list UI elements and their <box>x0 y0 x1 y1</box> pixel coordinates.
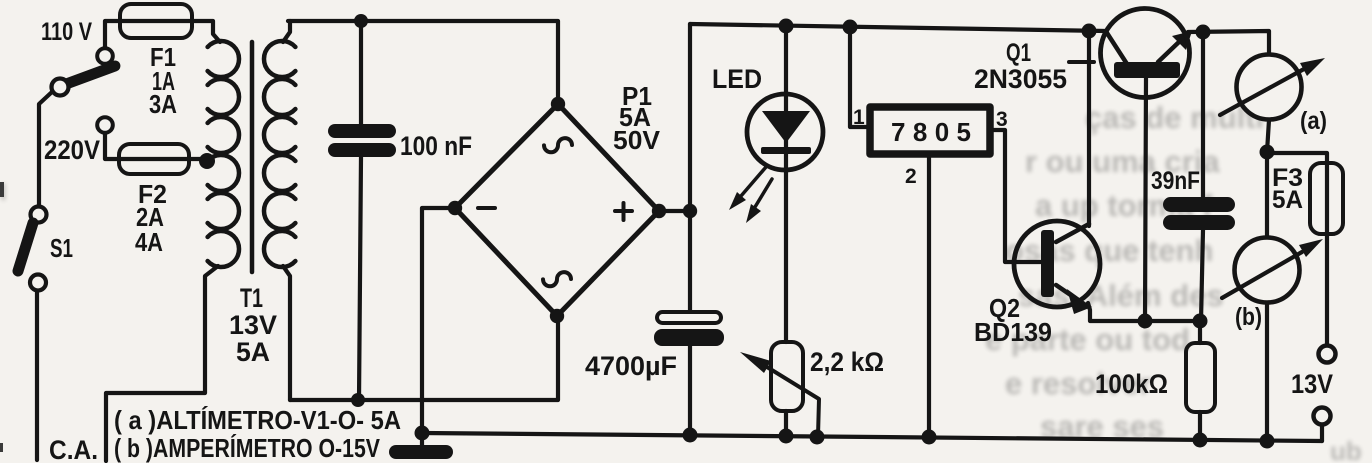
node Q1 base junction <box>1138 314 1153 329</box>
wire 39nF top <box>1201 32 1205 198</box>
LED light arrow 2 <box>746 179 772 223</box>
svg-text:2: 2 <box>905 165 917 188</box>
node rail 7805 <box>843 20 858 35</box>
svg-text:3A: 3A <box>149 89 177 119</box>
wire 100nF bottom <box>359 157 361 400</box>
capacitor 39nF <box>1163 197 1235 230</box>
selector contact 110V <box>97 48 113 64</box>
capacitor 4700uF <box>654 312 724 346</box>
node meters F3 junction <box>1260 145 1275 160</box>
svg-text:Q1: Q1 <box>1006 39 1031 67</box>
node rail 7805 pin2 <box>922 430 937 445</box>
wire 7805 pin 2 to rail <box>927 154 931 437</box>
transistor Q2 BD139 <box>1014 221 1100 314</box>
selector switch arm <box>58 66 115 87</box>
svg-text:5A: 5A <box>1272 186 1303 214</box>
node 39nF 100k junction <box>1193 314 1208 329</box>
node rail 39nF <box>1196 25 1211 40</box>
wire bridge minus to bottom rail <box>422 208 455 446</box>
terminal 13V plus <box>1319 346 1336 363</box>
svg-text:3: 3 <box>996 108 1008 131</box>
transformer T1 core <box>250 42 255 272</box>
wire 100k bottom <box>1198 412 1202 440</box>
LED D1 <box>747 94 823 170</box>
scan mark left edge lower <box>0 443 3 452</box>
bridge AC squiggle top <box>544 138 572 152</box>
wire 13V minus terminal to rail <box>1320 424 1324 441</box>
wire pot bottom to rail <box>784 411 788 436</box>
transformer T1 primary tap node <box>199 153 215 169</box>
fuse F1 <box>120 4 192 38</box>
transistor Q1 2N3055 <box>1101 9 1193 98</box>
wire node through fuse F3 to 13V plus terminal <box>1267 153 1327 346</box>
wire switch pivot down to S1 <box>39 91 53 206</box>
svg-text:39nF: 39nF <box>1151 167 1200 195</box>
svg-text:1: 1 <box>853 106 865 129</box>
wire bridge plus to 4700uF line <box>659 209 690 213</box>
svg-text:220V: 220V <box>44 135 100 165</box>
potentiometer wiper arrow <box>740 352 819 436</box>
wire meter (a) to node <box>1267 120 1269 152</box>
wire Q1 base down <box>1145 78 1146 321</box>
switch S1 contact top <box>31 207 47 223</box>
wire secondary top lead <box>283 21 290 42</box>
svg-text:(a): (a) <box>1300 107 1327 135</box>
svg-text:100kΩ: 100kΩ <box>1095 369 1168 399</box>
wire 4700uF vertical bottom <box>688 343 692 435</box>
wire Q2 emitter node to 100k node <box>1088 303 1200 321</box>
wire secondary bottom lead <box>283 266 290 400</box>
svg-text:( b )AMPERÍMETRO O-15V: ( b )AMPERÍMETRO O-15V <box>114 433 381 463</box>
svg-text:4A: 4A <box>135 227 163 257</box>
label pointer dash 2N3055 <box>1069 60 1094 64</box>
node rail 4700uF <box>683 428 698 443</box>
node rail 100k <box>1193 433 1208 448</box>
meter (b) <box>1222 238 1323 303</box>
wire 7805 pin 1 <box>850 27 870 127</box>
switch S1 arm <box>18 223 33 271</box>
switch S1 contact bottom <box>30 275 46 291</box>
fuse F2 <box>119 144 189 174</box>
node rail meter (b) <box>1260 434 1275 449</box>
svg-text:13V: 13V <box>1291 369 1333 399</box>
meter (a) <box>1220 55 1325 120</box>
bridge rectifier P1 <box>455 104 659 316</box>
node rail pot wiper <box>810 430 825 445</box>
resistor 100k <box>1186 343 1215 412</box>
LED light arrow 1 <box>729 167 766 210</box>
node secondary bottom / 100nF <box>351 393 365 407</box>
svg-text:5A: 5A <box>236 337 270 367</box>
wire 110V circle through fuse F1 to primary top <box>105 21 220 49</box>
wire top rail left segment <box>690 24 1106 31</box>
wire 220V circle through fuse F2 to primary tap <box>105 132 204 159</box>
node bridge right <box>652 204 666 218</box>
wire 39nF bottom <box>1201 230 1203 321</box>
svg-text:4700µF: 4700µF <box>585 351 677 381</box>
svg-text:(b): (b) <box>1235 303 1262 331</box>
svg-text:2N3055: 2N3055 <box>974 64 1067 94</box>
svg-text:LED: LED <box>712 64 762 94</box>
svg-text:110 V: 110 V <box>41 18 92 46</box>
node bridge plus column <box>683 204 697 218</box>
node bridge bottom <box>550 309 564 323</box>
wire secondary bottom line to bridge bottom <box>290 316 558 400</box>
wire meter (b) to bottom rail <box>1265 303 1269 441</box>
wire 100k top <box>1198 321 1202 343</box>
fuse F3 <box>1310 163 1343 234</box>
wire S1 bottom down to AC input <box>35 291 39 460</box>
regulator U1 7805 <box>870 107 990 154</box>
svg-text:BD139: BD139 <box>974 317 1052 347</box>
node bridge left <box>448 201 462 215</box>
wire 100nF top <box>359 21 363 124</box>
wire top rail right segment to meter (a) <box>1188 31 1269 54</box>
wire 7805 pin 3 to Q2 base <box>990 130 1041 262</box>
capacitor 100nF <box>328 124 396 157</box>
node rail pot bottom <box>779 429 794 444</box>
svg-text:S1: S1 <box>50 233 73 263</box>
scan mark left edge <box>0 182 4 197</box>
selector pivot contact <box>52 79 69 96</box>
svg-text:2,2 kΩ: 2,2 kΩ <box>810 347 884 377</box>
selector contact 220V <box>97 117 113 133</box>
node bridge top <box>551 97 565 111</box>
transformer T1 secondary winding <box>264 41 295 267</box>
wire 4700uF vertical top <box>688 24 692 311</box>
potentiometer 2.2k body <box>771 342 803 411</box>
wire bottom rail <box>422 433 1322 441</box>
node rail bridge minus <box>415 426 430 441</box>
bridge plus sign <box>615 203 632 220</box>
svg-text:T1: T1 <box>240 283 263 313</box>
bridge minus sign <box>478 206 495 210</box>
transformer T1 primary winding <box>208 41 239 267</box>
node rail LED <box>779 19 794 34</box>
svg-text:100 nF: 100 nF <box>400 131 472 161</box>
svg-text:ub: ub <box>1330 436 1362 463</box>
node rail Q2 collector <box>1082 24 1097 39</box>
svg-text:( a )ALTÍMETRO-V1-O- 5A: ( a )ALTÍMETRO-V1-O- 5A <box>114 405 401 435</box>
GHOST_TEXT <box>0 100 1362 463</box>
bridge AC squiggle bottom <box>543 272 571 286</box>
wire LED branch vertical <box>784 26 788 342</box>
wire secondary top line to bridge top <box>288 21 558 104</box>
wire Q2 collector to rail <box>1087 31 1091 226</box>
wire node to meter (b) <box>1265 152 1269 237</box>
wire primary bottom to legend-side AC input <box>106 266 218 461</box>
node secondary top / 100nF <box>354 14 368 28</box>
svg-text:50V: 50V <box>613 125 661 155</box>
svg-text:C.A.: C.A. <box>49 435 98 463</box>
terminal 13V minus <box>1314 408 1331 425</box>
svg-text:13V: 13V <box>229 310 277 340</box>
ground bar <box>389 445 453 459</box>
